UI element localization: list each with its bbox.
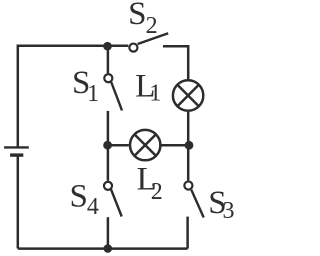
svg-text:2: 2 xyxy=(151,179,163,205)
svg-text:4: 4 xyxy=(87,194,99,220)
svg-text:2: 2 xyxy=(146,13,158,39)
wire: S1 fixed contact down to middle-left junction xyxy=(107,111,110,145)
label L2 xyxy=(137,162,163,205)
wire: middle-left junction to lamp L2 xyxy=(108,144,129,147)
wire: battery bottom plate down to bottom-left corner xyxy=(17,155,20,248)
wire: bottom run from left corner to right corner xyxy=(18,247,188,250)
switch S3 pivot circle xyxy=(184,181,192,189)
wire: S4 fixed contact down to bottom junction xyxy=(107,217,110,248)
switch S4 blade (open, down-right) xyxy=(111,189,122,216)
svg-text:S: S xyxy=(70,178,88,214)
junction node: middle-left xyxy=(103,141,112,150)
junction node: middle-right xyxy=(185,141,194,150)
svg-text:1: 1 xyxy=(149,81,161,107)
label S4 xyxy=(70,178,99,220)
wire: lamp L2 to middle-right junction xyxy=(162,144,190,147)
switch S2 blade (open, up-right) xyxy=(138,33,169,44)
switch S1 blade (open, down-right) xyxy=(111,81,122,110)
switch S3 blade (open, down-right) xyxy=(191,190,203,218)
lamp L2 (circle with X) xyxy=(130,130,160,160)
label S1 xyxy=(72,65,99,107)
lamp L1 (circle with X) xyxy=(173,80,203,110)
battery B short plate (negative) xyxy=(10,153,23,156)
junction node: top (S1 branch / top wire) xyxy=(103,42,112,51)
wire: top junction down to switch S1 xyxy=(107,46,110,73)
battery B long plate (positive) xyxy=(4,146,29,148)
svg-text:1: 1 xyxy=(87,81,99,107)
junction node: bottom xyxy=(104,244,113,253)
switch S1 pivot circle xyxy=(104,74,112,82)
wire: lamp L1 bottom to middle-right junction xyxy=(187,112,190,146)
wire: middle-left junction down to switch S4 xyxy=(107,145,110,181)
switch S4 pivot circle xyxy=(104,182,112,190)
label S3 xyxy=(208,185,234,224)
wire: S2 fixed contact, top-right corner, down to lamp L1 xyxy=(163,46,188,79)
label L1 xyxy=(135,68,161,106)
svg-text:S: S xyxy=(128,0,146,32)
wire: middle-right junction down to switch S3 xyxy=(187,145,190,180)
svg-text:3: 3 xyxy=(223,198,235,224)
label S2 xyxy=(128,0,158,39)
wire: battery top plate up and across top to switch S2 xyxy=(18,46,129,147)
switch S2 pivot circle xyxy=(129,44,137,52)
wire: S3 fixed contact down to bottom-right corner xyxy=(186,217,189,249)
